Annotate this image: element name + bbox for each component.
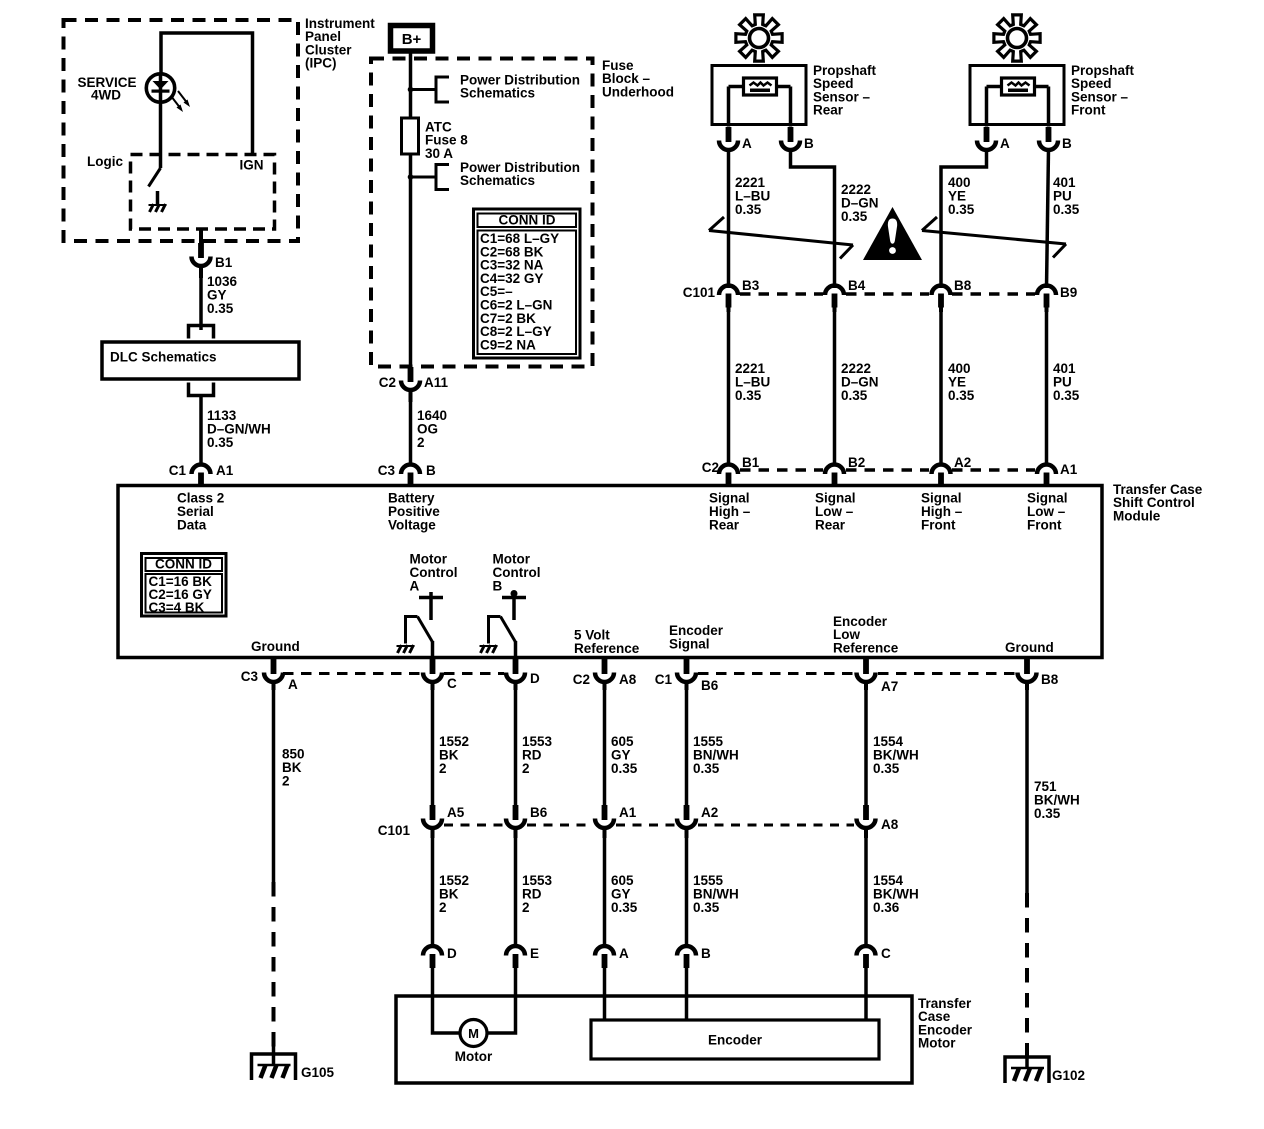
svg-text:2: 2 bbox=[522, 900, 530, 915]
switch in IPC logic bbox=[149, 168, 161, 187]
svg-text:B: B bbox=[804, 136, 814, 151]
wire 401 PU lower bbox=[1045, 308, 1049, 466]
wire 1036 GY bbox=[199, 278, 203, 330]
svg-text:0.35: 0.35 bbox=[735, 388, 762, 403]
svg-text:C3: C3 bbox=[378, 463, 396, 478]
svg-text:A1: A1 bbox=[216, 463, 234, 478]
svg-text:0.35: 0.35 bbox=[948, 202, 975, 217]
svg-text:0.35: 0.35 bbox=[207, 301, 234, 316]
svg-text:2: 2 bbox=[282, 773, 290, 788]
wire 1553 RD upper bbox=[514, 686, 518, 818]
Transfer Case Shift Control Module box bbox=[118, 486, 1102, 658]
wire 1133 D-GN/WH bbox=[199, 396, 203, 467]
motor control B ground bbox=[481, 645, 485, 653]
CONN ID table fuse block bbox=[474, 209, 581, 358]
connector pin A1 right bbox=[1037, 465, 1056, 488]
svg-text:A: A bbox=[742, 136, 752, 151]
connector pin D motor B bbox=[506, 659, 525, 690]
motor control A switch bbox=[406, 617, 433, 658]
wire IPC output bbox=[199, 229, 203, 246]
connector pin B3 bbox=[719, 286, 738, 313]
connector pin D motor bbox=[423, 946, 442, 996]
connector C2 A11 bbox=[401, 367, 420, 402]
svg-text:B2: B2 bbox=[848, 455, 865, 470]
wire 850 BK ground bbox=[272, 686, 276, 882]
battery feed B+ bbox=[391, 26, 433, 52]
ground G102 bbox=[1005, 1057, 1049, 1083]
svg-text:A: A bbox=[619, 946, 629, 961]
svg-text:A1: A1 bbox=[619, 805, 637, 820]
svg-text:B6: B6 bbox=[530, 805, 548, 820]
svg-text:A1: A1 bbox=[1060, 462, 1078, 477]
svg-text:C3: C3 bbox=[241, 669, 259, 684]
svg-text:B4: B4 bbox=[848, 278, 866, 293]
svg-text:0.35: 0.35 bbox=[1034, 806, 1061, 821]
svg-text:Logic: Logic bbox=[87, 154, 123, 169]
svg-text:B: B bbox=[493, 579, 503, 594]
svg-text:Voltage: Voltage bbox=[388, 518, 436, 533]
connector pin A7 bbox=[857, 659, 876, 690]
Propshaft Speed Sensor Rear bbox=[736, 15, 782, 61]
connector pin C motor A bbox=[423, 659, 442, 690]
Transfer Case Encoder Motor box bbox=[396, 996, 912, 1083]
svg-text:C2: C2 bbox=[573, 672, 590, 687]
svg-text:C1: C1 bbox=[169, 463, 187, 478]
CONN ID table module bbox=[142, 554, 227, 617]
svg-text:0.35: 0.35 bbox=[735, 202, 762, 217]
dashed connector line C2 bbox=[740, 468, 823, 472]
wire 400 YE front high bbox=[941, 149, 987, 288]
svg-text:0.35: 0.35 bbox=[207, 435, 234, 450]
wire 1554 BK/WH lower bbox=[864, 830, 868, 945]
svg-text:Motor: Motor bbox=[918, 1036, 956, 1051]
svg-text:M: M bbox=[468, 1026, 479, 1041]
connector C1 A1 bbox=[192, 465, 211, 488]
twisted pair symbol rear bbox=[709, 217, 724, 231]
motor M bbox=[433, 996, 516, 1047]
Fuse Block Underhood box bbox=[371, 59, 593, 367]
svg-text:B1: B1 bbox=[215, 255, 233, 270]
svg-text:A7: A7 bbox=[881, 679, 898, 694]
wire IGN loop bbox=[161, 33, 253, 154]
wire 1553 RD lower bbox=[514, 830, 518, 945]
svg-text:C101: C101 bbox=[683, 285, 716, 300]
svg-text:30 A: 30 A bbox=[425, 146, 453, 161]
dashed connector line C101 bbox=[740, 292, 823, 296]
svg-text:B6: B6 bbox=[701, 678, 719, 693]
wire 1552 BK lower bbox=[431, 830, 435, 945]
connector B front bbox=[1039, 127, 1058, 150]
svg-text:B: B bbox=[1062, 136, 1072, 151]
svg-text:Rear: Rear bbox=[709, 518, 740, 533]
svg-text:4WD: 4WD bbox=[91, 88, 121, 103]
dashed connector line module bottom bbox=[283, 672, 421, 675]
connector pin C encoder bbox=[857, 946, 876, 1020]
svg-text:0.36: 0.36 bbox=[873, 900, 900, 915]
dashed connector line C101 lower bbox=[444, 824, 504, 827]
svg-text:0.35: 0.35 bbox=[1053, 388, 1080, 403]
svg-text:B8: B8 bbox=[954, 278, 972, 293]
Encoder box bbox=[591, 1020, 879, 1059]
connector C3 B bbox=[401, 465, 420, 488]
svg-text:2: 2 bbox=[439, 900, 447, 915]
wire 2221 L-BU lower bbox=[727, 308, 731, 466]
svg-text:Ground: Ground bbox=[251, 639, 300, 654]
svg-text:Module: Module bbox=[1113, 508, 1161, 523]
svg-text:B8: B8 bbox=[1041, 672, 1059, 687]
svg-text:C2: C2 bbox=[379, 375, 396, 390]
connector pin A encoder bbox=[595, 946, 614, 1020]
svg-text:C: C bbox=[881, 946, 891, 961]
tap Power Distribution Schematics 2 bbox=[408, 165, 449, 190]
svg-text:B3: B3 bbox=[742, 278, 760, 293]
connector pin B8 right bbox=[1018, 659, 1037, 690]
svg-text:G105: G105 bbox=[301, 1065, 335, 1080]
connector pin A2 lower bbox=[677, 805, 696, 838]
svg-text:2: 2 bbox=[522, 761, 530, 776]
connector pin C2 A8 bbox=[595, 659, 614, 690]
svg-text:B: B bbox=[701, 946, 711, 961]
svg-text:Signal: Signal bbox=[669, 636, 710, 651]
connector pin B8 top bbox=[932, 286, 951, 313]
svg-text:A11: A11 bbox=[424, 375, 449, 390]
motor control B output tap bbox=[502, 590, 526, 620]
svg-text:0.35: 0.35 bbox=[948, 388, 975, 403]
wire 1552 BK upper bbox=[431, 686, 435, 818]
fuse ATC Fuse 8 30A bbox=[402, 118, 419, 154]
wire 1554 BK/WH upper bbox=[864, 686, 868, 818]
svg-text:B: B bbox=[426, 463, 436, 478]
svg-text:C101: C101 bbox=[378, 823, 411, 838]
connector pin A2 top bbox=[932, 465, 951, 488]
svg-text:0.35: 0.35 bbox=[611, 900, 638, 915]
connector pin A8 lower bbox=[857, 805, 876, 838]
connector pin B9 bbox=[1037, 286, 1056, 313]
wire 605 GY upper bbox=[603, 686, 607, 818]
connector pin A1 lower bbox=[595, 805, 614, 838]
svg-text:Rear: Rear bbox=[813, 103, 844, 118]
svg-text:A5: A5 bbox=[447, 805, 465, 820]
wire battery bus bbox=[409, 51, 413, 372]
svg-text:Front: Front bbox=[921, 518, 956, 533]
svg-text:Encoder: Encoder bbox=[708, 1033, 763, 1048]
wire 751 BK/WH ground bbox=[1025, 686, 1029, 893]
connector pin C1 B6 bbox=[677, 659, 696, 690]
svg-text:Underhood: Underhood bbox=[602, 84, 674, 99]
connector A rear bbox=[719, 127, 738, 150]
svg-text:0.35: 0.35 bbox=[841, 209, 868, 224]
connector pin E motor bbox=[506, 946, 525, 996]
svg-text:0.35: 0.35 bbox=[693, 900, 720, 915]
svg-text:IGN: IGN bbox=[240, 158, 264, 173]
tap Power Distribution Schematics 1 bbox=[408, 77, 449, 102]
svg-text:(IPC): (IPC) bbox=[305, 56, 337, 71]
svg-text:Reference: Reference bbox=[833, 640, 899, 655]
LED SERVICE 4WD bbox=[146, 73, 190, 168]
connector pin A5 bbox=[423, 805, 442, 838]
svg-text:A2: A2 bbox=[954, 455, 971, 470]
twisted pair symbol front bbox=[922, 217, 937, 231]
svg-text:B9: B9 bbox=[1060, 285, 1077, 300]
ground in IPC logic bbox=[156, 191, 160, 204]
svg-text:2: 2 bbox=[439, 761, 447, 776]
svg-text:Motor: Motor bbox=[455, 1049, 493, 1064]
svg-text:0.35: 0.35 bbox=[841, 388, 868, 403]
motor control A ground bbox=[398, 645, 402, 653]
wire 1640 OG bbox=[409, 400, 413, 466]
DLC Schematics box bbox=[102, 326, 299, 396]
wire 605 GY lower bbox=[603, 830, 607, 945]
connector pin C3 A ground bbox=[264, 659, 283, 690]
svg-text:D: D bbox=[447, 946, 457, 961]
svg-text:G102: G102 bbox=[1052, 1068, 1085, 1083]
svg-text:A: A bbox=[1000, 136, 1010, 151]
Propshaft Speed Sensor Front bbox=[994, 15, 1040, 61]
connector pin B6 lower bbox=[506, 805, 525, 838]
svg-text:C1: C1 bbox=[655, 672, 673, 687]
svg-text:DLC Schematics: DLC Schematics bbox=[110, 350, 217, 365]
svg-text:CONN ID: CONN ID bbox=[155, 557, 212, 572]
svg-text:A8: A8 bbox=[619, 672, 637, 687]
svg-text:C3=4 BK: C3=4 BK bbox=[149, 600, 205, 615]
svg-text:Data: Data bbox=[177, 518, 207, 533]
wire 2221 L-BU rear high bbox=[727, 149, 731, 288]
svg-text:B1: B1 bbox=[742, 455, 760, 470]
svg-text:Front: Front bbox=[1027, 518, 1062, 533]
svg-text:C2: C2 bbox=[702, 460, 719, 475]
wire 400 YE lower bbox=[939, 308, 943, 466]
ground G105 bbox=[252, 1054, 296, 1080]
wire 2222 D-GN rear low bbox=[791, 149, 835, 288]
logic box bbox=[131, 155, 275, 230]
svg-text:Schematics: Schematics bbox=[460, 86, 535, 101]
svg-text:Ground: Ground bbox=[1005, 640, 1054, 655]
warning triangle bbox=[863, 207, 922, 260]
Instrument Panel Cluster box bbox=[64, 20, 299, 241]
svg-text:0.35: 0.35 bbox=[873, 761, 900, 776]
svg-text:B+: B+ bbox=[402, 31, 422, 48]
svg-text:Reference: Reference bbox=[574, 641, 640, 656]
svg-text:E: E bbox=[530, 946, 539, 961]
svg-text:2: 2 bbox=[417, 435, 425, 450]
connector B rear bbox=[781, 127, 800, 150]
svg-text:C: C bbox=[447, 676, 457, 691]
svg-text:A2: A2 bbox=[701, 805, 718, 820]
svg-text:A: A bbox=[288, 677, 298, 692]
svg-text:0.35: 0.35 bbox=[611, 761, 638, 776]
svg-text:0.35: 0.35 bbox=[1053, 202, 1080, 217]
svg-text:CONN ID: CONN ID bbox=[499, 213, 556, 228]
connector A front bbox=[977, 127, 996, 150]
wire 401 PU front low bbox=[1047, 149, 1049, 288]
connector pin B1 bbox=[719, 465, 738, 488]
svg-text:0.35: 0.35 bbox=[693, 761, 720, 776]
connector pin B encoder bbox=[677, 946, 696, 1020]
svg-text:Schematics: Schematics bbox=[460, 173, 535, 188]
wire 2222 D-GN lower bbox=[833, 308, 837, 466]
svg-text:Front: Front bbox=[1071, 103, 1106, 118]
svg-text:Rear: Rear bbox=[815, 518, 846, 533]
connector pin B4 bbox=[825, 286, 844, 313]
motor control A output tap bbox=[419, 592, 443, 620]
connector B1 bbox=[192, 243, 211, 278]
svg-text:C9=2 NA: C9=2 NA bbox=[480, 337, 536, 352]
svg-text:A: A bbox=[410, 579, 420, 594]
svg-text:D: D bbox=[530, 671, 540, 686]
connector pin B2 bbox=[825, 465, 844, 488]
motor control B switch bbox=[489, 617, 516, 658]
wire 1555 BN/WH lower bbox=[685, 830, 689, 945]
svg-text:A8: A8 bbox=[881, 817, 899, 832]
wire 1555 BN/WH upper bbox=[685, 686, 689, 818]
